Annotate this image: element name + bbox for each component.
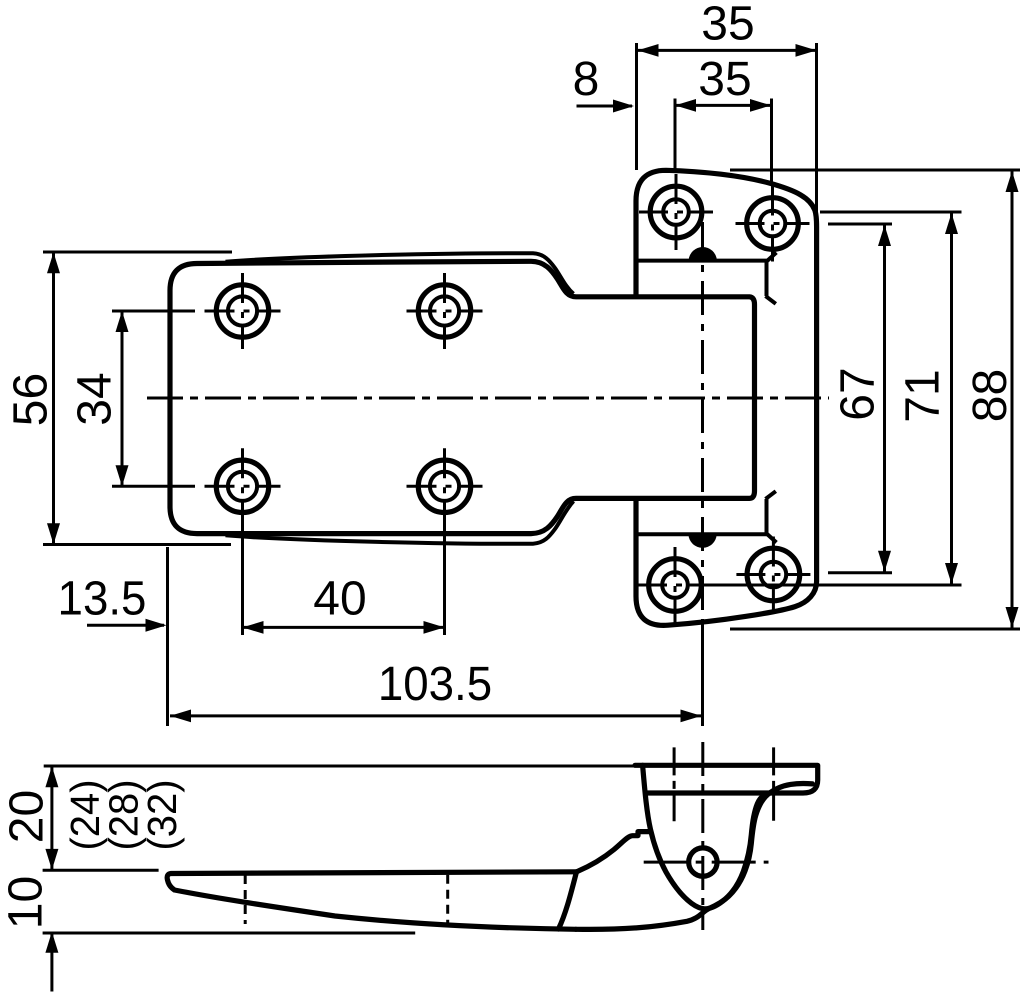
- bracket side view: top plate: [635, 765, 818, 793]
- svg-text:67: 67: [832, 367, 885, 420]
- leaf side view: neck rise to bracket: [577, 832, 650, 872]
- leaf side view: top surface and wedge pad: [167, 872, 576, 930]
- hole leaf top-left: crosshair: [205, 310, 281, 313]
- dim 35 outer: extension lines: [635, 43, 638, 170]
- hole bracket bottom-left: circles: [649, 559, 702, 612]
- chamfer tick top band upper: [767, 253, 777, 262]
- pin axis centerline (top view): [701, 222, 704, 620]
- dim 34: extension lines: [112, 310, 195, 313]
- hole leaf bottom-left: crosshair: [205, 485, 281, 488]
- hole bracket bottom-right: circles: [747, 548, 800, 601]
- dim 67: extension lines: [828, 223, 892, 226]
- bracket side view: pin boss body: [643, 765, 768, 909]
- knuckle band bottom: upper edge line: [636, 532, 767, 536]
- hole leaf top-right: crosshair: [407, 310, 483, 313]
- chamfer tick top band lower: [766, 296, 776, 304]
- dim 88: dimension line: [1011, 171, 1014, 628]
- svg-text:103.5: 103.5: [378, 658, 492, 711]
- hole bracket top-right: crosshair: [736, 222, 810, 225]
- hole bracket bottom-left: crosshair: [638, 584, 712, 587]
- dim 71: extension lines: [820, 211, 962, 214]
- pin axis vertical centerline (side view): [701, 742, 704, 930]
- chamfer tick bottom band lower: [767, 534, 777, 543]
- dim 40: dimension line: [243, 626, 445, 629]
- dim 10: reference line at leaf underside: [43, 932, 416, 935]
- dim 103.5: extension line left: [166, 547, 169, 726]
- dim 20: extension line at leaf top surface: [43, 869, 159, 872]
- hole bracket top-right: circles: [747, 198, 799, 250]
- dim 35 outer: dimension line: [638, 49, 817, 52]
- dim 10: arrow from below: [50, 934, 53, 992]
- svg-text:13.5: 13.5: [58, 573, 147, 626]
- dim 20: dimension line: [50, 766, 53, 870]
- dim 34: dimension line: [121, 311, 124, 486]
- hole leaf bottom-left: circles: [216, 460, 268, 512]
- svg-text:20: 20: [1, 790, 54, 843]
- svg-text:56: 56: [5, 373, 58, 426]
- hole leaf top-right: circles: [418, 285, 470, 337]
- knuckle band bottom: right end edge: [765, 499, 769, 534]
- svg-text:(32): (32): [140, 780, 185, 851]
- knuckle band top: lower edge line: [636, 259, 767, 263]
- leaf top flange line: [226, 253, 574, 294]
- hole bracket bottom-right: crosshair: [736, 573, 810, 576]
- svg-text:8: 8: [573, 53, 600, 106]
- svg-text:34: 34: [69, 372, 122, 425]
- leaf bottom flange line: [226, 501, 574, 544]
- hole bracket top-left: crosshair: [639, 211, 713, 214]
- dim 67: dimension line: [883, 225, 886, 572]
- leaf outline (top view, door-side plate with step to hinge neck): [170, 261, 755, 533]
- dim 71: dimension line: [950, 213, 953, 584]
- hole centerline right (side view): [772, 747, 775, 820]
- leaf side view: underside sweeping to knuckle curl: [576, 784, 813, 930]
- svg-text:10: 10: [0, 876, 53, 929]
- svg-text:35: 35: [698, 53, 751, 106]
- mounting plane reference line: [44, 765, 635, 768]
- hole leaf bottom-right: circles: [418, 460, 470, 512]
- svg-text:35: 35: [701, 0, 754, 51]
- svg-text:40: 40: [313, 573, 366, 626]
- dim 8: leader arrow: [577, 105, 633, 108]
- hole bracket top-left: circles: [650, 186, 702, 238]
- dim 56: dimension line: [52, 252, 55, 544]
- dim 35 inner: extension lines: [674, 99, 677, 174]
- hidden hole line right leaf (side view): [446, 875, 449, 923]
- pin end dome bottom: [688, 533, 716, 547]
- hinge bracket outline (top view): [636, 170, 817, 625]
- dim 13.5: leader arrow: [87, 624, 164, 627]
- hole centerline left (side view): [673, 747, 676, 821]
- svg-text:71: 71: [896, 369, 949, 422]
- knuckle band top: right end edge: [765, 261, 769, 296]
- pin end dome top: [689, 247, 717, 262]
- dim 40: extension lines: [241, 524, 244, 635]
- dim 88: extension lines: [730, 169, 1020, 172]
- dim 56: extension lines: [43, 251, 232, 254]
- pin axis horizontal centerline (side view): [644, 861, 769, 864]
- hole leaf top-left: circles: [216, 285, 268, 337]
- hole leaf bottom-right: crosshair: [407, 485, 483, 488]
- dim 103.5: dimension line: [170, 714, 702, 717]
- dim 35 inner: dimension line: [675, 104, 771, 107]
- hidden hole line left leaf (side view): [244, 875, 247, 924]
- svg-text:88: 88: [964, 369, 1017, 422]
- horizontal centerline of hinge: [147, 397, 829, 400]
- leaf side view: pad end edge: [559, 872, 577, 929]
- chamfer tick bottom band upper: [766, 491, 776, 499]
- pin hole: [689, 848, 717, 876]
